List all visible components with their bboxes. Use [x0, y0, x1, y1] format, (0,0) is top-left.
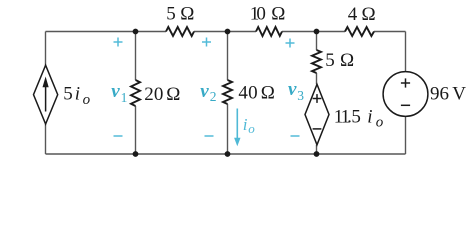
svg-text:4: 4 [238, 83, 248, 104]
svg-text:Ω: Ω [271, 3, 285, 24]
svg-text:v: v [288, 79, 297, 100]
svg-text:5: 5 [325, 50, 335, 71]
svg-text:0: 0 [256, 3, 266, 24]
svg-text:i: i [75, 83, 80, 104]
svg-text:o: o [376, 114, 384, 130]
svg-text:Ω: Ω [340, 50, 354, 71]
svg-text:5: 5 [351, 106, 361, 127]
svg-text:5: 5 [166, 4, 176, 25]
svg-text:1: 1 [121, 90, 128, 105]
svg-text:Ω: Ω [166, 84, 180, 105]
svg-text:Ω: Ω [362, 4, 376, 25]
svg-text:i: i [367, 106, 372, 127]
svg-text:2: 2 [144, 84, 154, 105]
svg-text:o: o [248, 121, 255, 136]
svg-text:v: v [200, 81, 209, 102]
svg-text:o: o [83, 92, 91, 108]
svg-text:0: 0 [248, 83, 258, 104]
svg-text:2: 2 [210, 89, 217, 104]
svg-text:Ω: Ω [261, 83, 275, 104]
svg-text:0: 0 [154, 84, 164, 105]
svg-text:V: V [452, 83, 466, 104]
svg-text:96: 96 [430, 83, 449, 104]
svg-text:v: v [111, 81, 120, 102]
svg-text:4: 4 [348, 4, 358, 25]
svg-text:5: 5 [63, 83, 72, 104]
svg-text:i: i [243, 115, 248, 134]
svg-text:3: 3 [297, 88, 304, 103]
svg-text:Ω: Ω [180, 4, 194, 25]
